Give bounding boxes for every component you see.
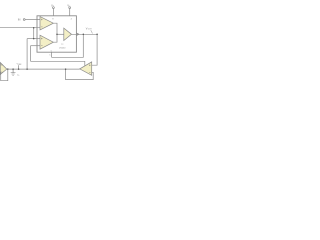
op-amp polarity marks (1, 19, 90, 73)
op-amp buffer A4 (points left) (80, 62, 92, 75)
pin V- terminal circle (69, 7, 71, 9)
node dot (33.7,38.6) (33, 38, 35, 40)
node dot (83.3,33.7) (83, 34, 85, 36)
wire vertical branch x33.7 (33, 28, 35, 39)
op-amp buffer A3 (64, 28, 72, 40)
junction dots (7, 27, 98, 70)
input terminal circle IN (23, 19, 25, 21)
svg-text:5: 5 (51, 51, 52, 53)
labels (17, 3, 93, 77)
wire output branch down x97 to buffer A4 + input (92, 34, 97, 65)
A4 marks (89, 64, 91, 66)
pointer arrow for VOUT (91, 30, 93, 33)
svg-text:IN: IN (18, 18, 21, 22)
wire ground drop at x13.1 (12, 69, 14, 73)
op-amp A5 (reference buffer, clipped at left) (0, 63, 7, 75)
wire vertical branch x30.5 (30, 46, 32, 62)
pin V+ lead (52, 9, 54, 16)
wire A1 output (53, 23, 57, 42)
wire to buffer A3 input (57, 33, 64, 35)
wire to op-amp A2 + input (27, 38, 40, 40)
wire output rail (72, 33, 98, 35)
svg-text:LT1010: LT1010 (59, 47, 65, 49)
wire left rail to op-amp A1 - input (0, 27, 40, 29)
pin V- lead (69, 9, 71, 16)
A5 marks (1, 64, 2, 66)
node dot (57,33.7) (56, 34, 58, 36)
A1 marks (41, 19, 43, 21)
svg-text:5: 5 (49, 54, 50, 56)
wire output branch down x83.3 (52, 34, 84, 57)
op-amp A2 (40, 35, 53, 49)
IC boundary box U1 (37, 16, 76, 52)
node dot (27.1,68.9) (26, 68, 28, 70)
svg-text:L: L (19, 75, 20, 77)
wire to op-amp A2 - input (31, 45, 41, 47)
op-amp A1 (40, 17, 53, 30)
ground symbol G1 (11, 73, 16, 76)
svg-text:TJ: TJ (61, 44, 63, 46)
wire A5 + input stub (0, 64, 2, 66)
background (0, 0, 100, 100)
node label tick at x18.6 (18, 65, 20, 69)
node dot (8.8,68.9) (7, 68, 8, 69)
bottom rail wire (7, 68, 80, 70)
node dot (65.6,68.9) (65, 68, 67, 70)
node dot (33.7,27.7) (33, 27, 35, 29)
pin 5 stub under box (51, 52, 53, 57)
wire IN to op-amp A1 + input (25, 19, 40, 21)
svg-text:REF: REF (18, 64, 21, 66)
node dot (97,33.7) (96, 34, 98, 36)
pin V+ terminal circle (53, 7, 55, 9)
wire lower feedback loop (66, 69, 94, 80)
node dot (13.1,68.9) (12, 68, 14, 70)
output port chevron at box edge (76, 33, 79, 36)
node dot (18.6,68.9) (18, 68, 20, 70)
A2 marks (41, 38, 43, 40)
wire mid rail y61 (31, 61, 85, 66)
wire A5 feedback loop (1, 69, 8, 81)
wire vertical branch x27.1 down to bottom rail (26, 39, 28, 70)
